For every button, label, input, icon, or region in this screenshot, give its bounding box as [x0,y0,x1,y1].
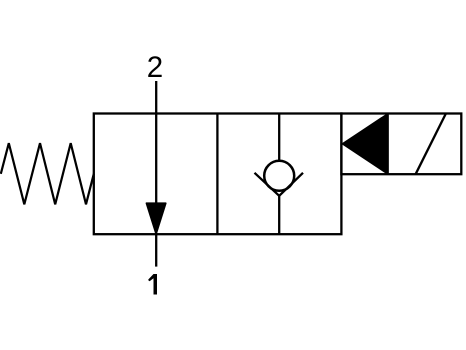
svg-text:2: 2 [147,51,163,84]
